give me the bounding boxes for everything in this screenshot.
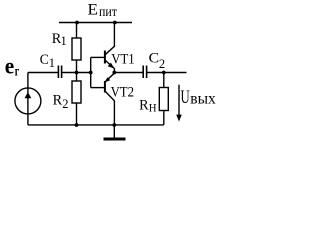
svg-text:Н: Н: [149, 101, 157, 115]
capacitor C2: [143, 66, 146, 79]
resistor R1: [72, 38, 81, 60]
transistor VT2: [104, 73, 114, 126]
wire R1 top lead: [76, 23, 78, 39]
svg-text:C: C: [40, 52, 49, 68]
resistor R2: [72, 81, 81, 103]
svg-text:U: U: [181, 87, 190, 108]
svg-text:R: R: [139, 97, 149, 113]
svg-text:пит: пит: [99, 5, 117, 20]
svg-text:VT1: VT1: [111, 52, 134, 68]
wire C2 to output: [147, 72, 187, 74]
node dot ground: [112, 123, 116, 127]
wire C1 to base trunk: [62, 72, 91, 74]
svg-text:E: E: [88, 1, 99, 18]
svg-text:C: C: [149, 51, 160, 67]
wire Rn bottom lead: [163, 111, 165, 125]
node dot input-R divider: [75, 71, 79, 75]
node dot R2 bottom: [75, 123, 79, 127]
transistor VT1: [105, 23, 115, 73]
wire VT2 base lead: [91, 87, 104, 89]
source eG arrow: [25, 92, 32, 98]
wire bottom return: [28, 124, 164, 126]
svg-text:VT2: VT2: [111, 85, 134, 101]
node dot output-Rn: [162, 71, 166, 75]
svg-text:г: г: [15, 64, 19, 79]
output arrow Uvyh: [176, 85, 182, 122]
resistor Rn: [159, 88, 168, 111]
node dot base trunk: [89, 71, 93, 75]
svg-text:1: 1: [61, 34, 67, 48]
wire R2 top lead: [76, 73, 78, 82]
node dot emitters: [112, 71, 116, 75]
node dot rail-VT1 collector: [113, 21, 117, 25]
svg-text:2: 2: [62, 97, 68, 111]
wire power rail: [59, 22, 132, 24]
node dot rail-R1: [75, 21, 79, 25]
wire VT1 base lead: [91, 56, 104, 58]
source eG vertical lead: [27, 73, 29, 125]
wire R2 bottom lead: [76, 103, 78, 125]
svg-text:R: R: [53, 93, 63, 109]
svg-text:1: 1: [49, 56, 55, 70]
wire R1 bottom lead: [76, 60, 78, 73]
capacitor C1: [58, 66, 61, 79]
svg-text:e: e: [5, 53, 15, 78]
source eG circle: [15, 88, 41, 114]
wire base trunk vertical: [90, 57, 92, 87]
ground: [104, 138, 126, 141]
svg-text:2: 2: [159, 57, 165, 71]
wire input horizontal: [28, 72, 58, 74]
ground stub: [113, 125, 115, 138]
wire Rn top lead: [163, 73, 165, 88]
wire emitters node to C2: [114, 72, 143, 74]
svg-text:вых: вых: [190, 90, 216, 107]
